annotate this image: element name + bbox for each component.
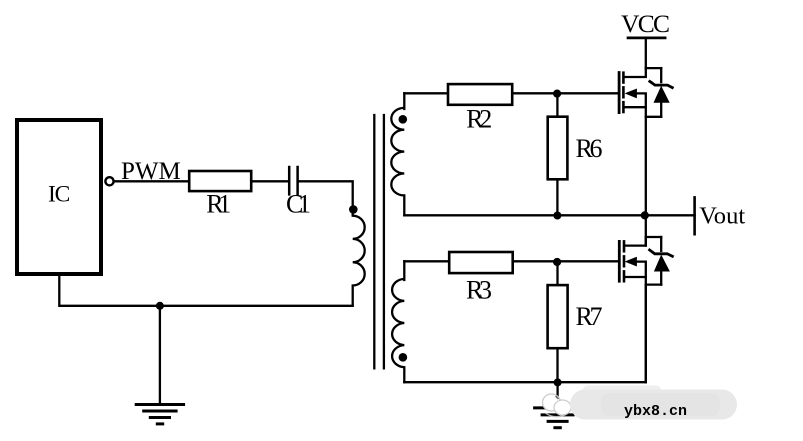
wire R3 to gate of Q2 (513, 260, 618, 262)
svg-text:R1: R1 (206, 190, 231, 219)
wire node to ground (159, 306, 161, 404)
svg-text:ybx8.cn: ybx8.cn (624, 403, 687, 420)
transistor Q1 top MOSFET (619, 68, 661, 246)
secondary top phase dot (399, 115, 408, 124)
pin PWM terminal circle (105, 177, 113, 185)
wire C1 to transformer primary top (299, 181, 353, 215)
junction Vout node (641, 211, 649, 219)
svg-text:R3: R3 (466, 276, 492, 305)
svg-text:C1: C1 (286, 190, 311, 219)
resistor R3 (449, 252, 513, 273)
wire R6 to output rail (556, 179, 558, 215)
svg-text:IC: IC (48, 182, 70, 208)
transformer T1 secondary bottom winding (392, 261, 404, 382)
primary phase dot (349, 205, 358, 214)
ground GND2 (535, 408, 581, 428)
junction R6 rail node (553, 212, 561, 220)
resistor R7 (548, 285, 568, 348)
secondary bottom phase dot (399, 353, 408, 362)
wire R2 to gate of Q1 (512, 92, 618, 94)
terminal Vout bar (693, 197, 696, 234)
wire node to R7 (556, 261, 558, 285)
ground GND1 (136, 405, 183, 424)
wire R1 to C1 (251, 180, 288, 182)
wire R7 to ground rail (556, 348, 558, 382)
capacitor C1 (289, 167, 297, 194)
transformer T1 secondary top winding (391, 93, 404, 215)
node R3-R7 junction (553, 258, 561, 266)
svg-text:Vout: Vout (699, 203, 745, 230)
resistor R2 (448, 84, 512, 105)
watermark blob (570, 386, 737, 420)
wire secondary bottom to R3 (404, 260, 449, 262)
wire ground rail to Q2 source (404, 285, 646, 382)
wire output rail to Vout (404, 214, 694, 216)
power VCC symbol (628, 37, 665, 40)
wire secondary top to R2 (404, 92, 448, 94)
resistor R1 (189, 171, 251, 191)
transformer T1 core (374, 115, 384, 368)
IC U1 controller box (17, 120, 101, 274)
wire PWM to R1 (114, 180, 190, 182)
transformer T1 primary winding (353, 216, 365, 306)
junction ground node (156, 302, 164, 310)
diode D1 body diode of Q1 (650, 68, 673, 117)
wire node to right ground (556, 382, 558, 407)
wire node to R6 (556, 93, 558, 116)
resistor R6 (548, 117, 568, 180)
svg-text:R2: R2 (466, 105, 492, 134)
svg-text:R6: R6 (576, 134, 603, 163)
node R2-R6 junction (553, 90, 561, 98)
diode D2 body diode of Q2 (650, 237, 673, 285)
wire primary bottom to IC (59, 274, 352, 306)
watermark smudge scribble (543, 394, 572, 417)
svg-text:R7: R7 (576, 302, 603, 331)
junction ground rail node (554, 378, 562, 386)
svg-text:VCC: VCC (621, 9, 670, 38)
transistor Q2 bottom MOSFET (619, 237, 661, 382)
